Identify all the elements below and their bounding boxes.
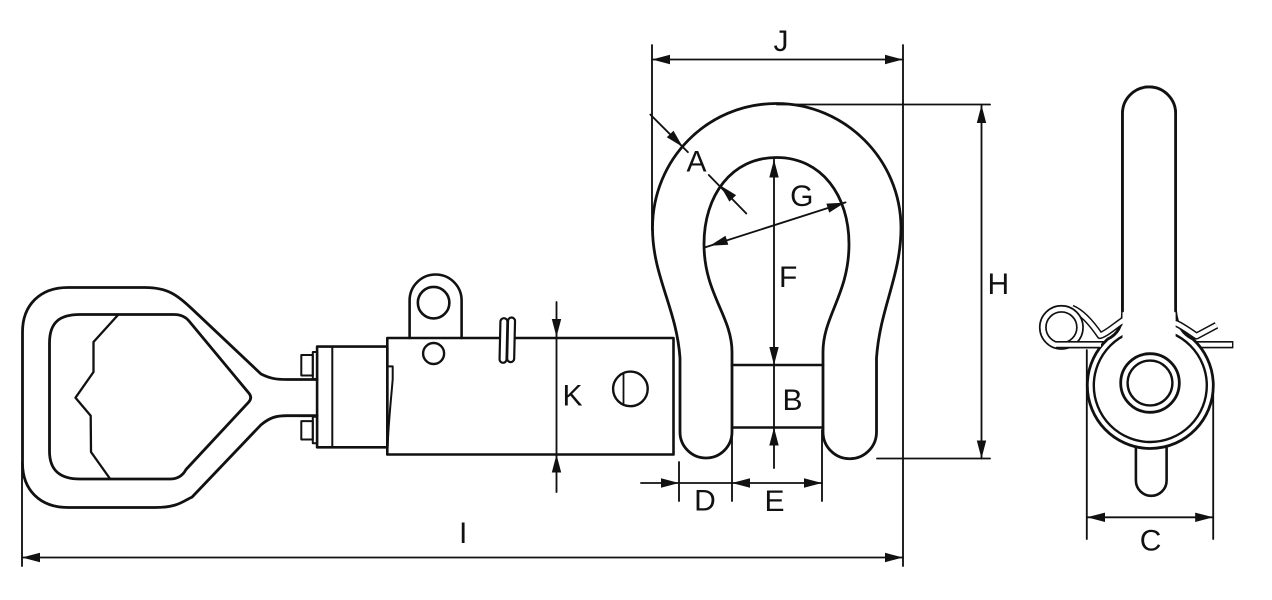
bolt top flange <box>313 352 317 379</box>
G dimension line <box>704 202 845 247</box>
H extension bottom <box>877 458 990 460</box>
I extension left <box>21 462 23 566</box>
H extension top <box>777 104 990 106</box>
K dimension line <box>556 302 558 492</box>
svg-text:C: C <box>1140 525 1162 558</box>
J dimension line <box>652 59 903 61</box>
body sleeve step notch <box>388 366 393 446</box>
C extension left <box>1086 350 1088 539</box>
A dimension line lower segment <box>709 175 747 214</box>
arrow K top <box>552 319 561 337</box>
ring outer contour <box>23 288 318 508</box>
lug hole <box>418 287 450 319</box>
svg-text:B: B <box>783 384 803 417</box>
top lug tab <box>410 275 462 339</box>
split pin prong left <box>499 318 507 363</box>
R-clip straight leg (behind boss) <box>1056 341 1233 348</box>
split pin prong right <box>507 317 515 362</box>
arrow F top <box>769 160 778 178</box>
boss with shank fillets (outer flange circle) <box>1087 87 1213 449</box>
arrow C right <box>1195 513 1213 522</box>
arrow E left <box>732 478 750 487</box>
arrow G left <box>710 236 729 246</box>
arrow H top <box>977 105 986 123</box>
boss inner step circle <box>1094 329 1207 442</box>
C dimension line <box>1087 516 1213 518</box>
svg-text:D: D <box>694 484 716 517</box>
arrow J right <box>885 55 903 64</box>
clevis block <box>317 347 387 448</box>
body pin hole chord <box>623 373 625 404</box>
arrow F bottom <box>769 347 778 365</box>
arrow D <box>661 478 679 487</box>
svg-text:E: E <box>764 485 784 518</box>
I dimension line <box>22 557 903 559</box>
C extension right <box>1212 390 1214 539</box>
ring inner contour <box>50 315 251 480</box>
arrow H bottom <box>977 441 986 459</box>
swage body <box>387 338 673 455</box>
arrow B bottom <box>769 428 778 446</box>
F / B dimension line <box>773 160 775 469</box>
R-clip top wavy wire <box>1072 308 1217 336</box>
H dimension line <box>981 105 983 459</box>
R-clip leg overlay crossing loop <box>1056 341 1101 348</box>
bolt top crown <box>301 355 313 376</box>
clevis block inner edge <box>331 347 333 448</box>
shackle pin hanging below boss <box>1136 420 1167 496</box>
bolt bottom flange <box>313 417 317 443</box>
pin hole inner <box>1128 361 1173 406</box>
A dimension line upper segment <box>650 115 688 153</box>
ring break zigzag line <box>76 316 118 479</box>
D/E dimension line <box>641 482 822 484</box>
svg-text:H: H <box>987 268 1009 301</box>
pin hole outer <box>1121 354 1180 413</box>
arrow E right <box>804 478 822 487</box>
arrow J left <box>652 55 670 64</box>
body small hole <box>423 343 444 364</box>
D extension left <box>678 462 680 501</box>
svg-text:I: I <box>459 517 467 550</box>
shackle shank fill (hides wire behind shank) <box>1123 87 1176 345</box>
shackle pin bottom line <box>732 426 823 429</box>
svg-text:K: K <box>563 380 583 413</box>
arrow G right <box>826 203 845 213</box>
arrow A upper <box>667 131 683 147</box>
shackle pin top line <box>732 364 823 367</box>
shackle shank outline <box>1123 87 1176 311</box>
svg-text:G: G <box>790 180 813 213</box>
arrow A lower <box>720 185 736 201</box>
arrow I right <box>885 553 903 562</box>
arrow I left <box>22 553 40 562</box>
R-clip loop <box>1043 309 1080 346</box>
J extension left <box>651 45 653 230</box>
bolt bottom crown <box>301 421 313 439</box>
arrow C left <box>1087 513 1105 522</box>
svg-text:F: F <box>779 261 797 294</box>
svg-text:A: A <box>686 145 706 178</box>
arrow K bottom <box>552 455 561 473</box>
E extension right <box>821 430 823 501</box>
J / I shared extension right <box>902 45 904 566</box>
D/E shared extension <box>731 430 733 501</box>
bow shackle outline <box>653 104 902 459</box>
svg-text:J: J <box>774 25 789 58</box>
body pin hole circle <box>613 372 648 407</box>
